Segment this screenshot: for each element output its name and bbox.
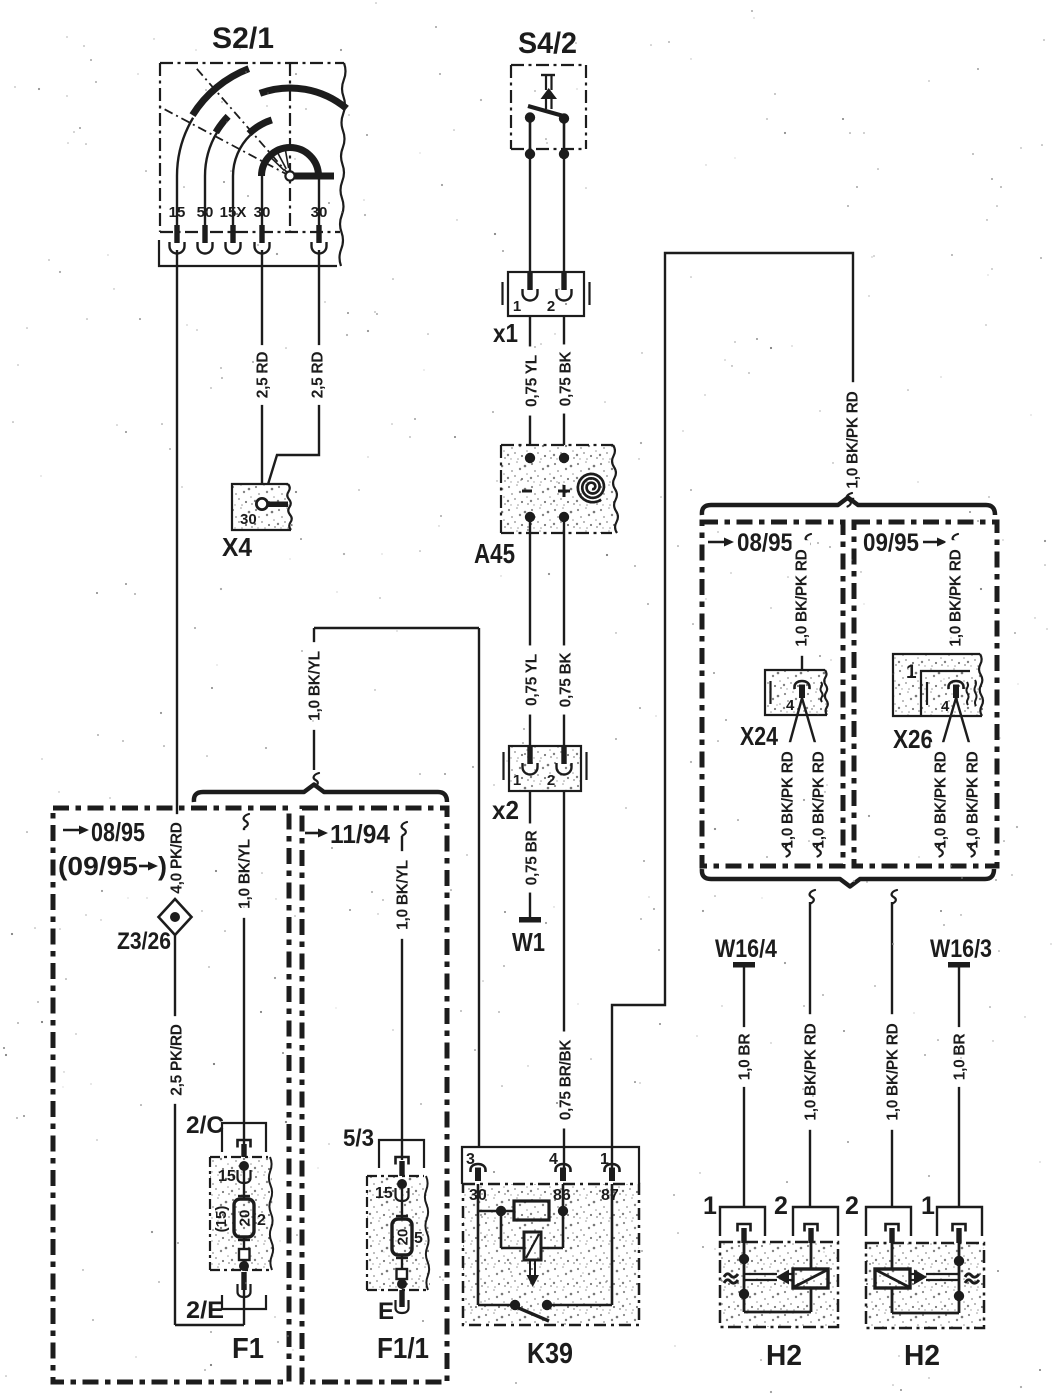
svg-text:W1: W1 xyxy=(512,927,545,957)
svg-text:0,75 YL: 0,75 YL xyxy=(523,654,540,706)
svg-text:20: 20 xyxy=(395,1229,412,1246)
svg-text:1,0 BR: 1,0 BR xyxy=(736,1034,753,1081)
svg-text:2,5 PK/RD: 2,5 PK/RD xyxy=(168,1024,185,1095)
svg-text:1: 1 xyxy=(703,1192,717,1220)
svg-text:09/95: 09/95 xyxy=(863,529,919,557)
svg-text:H2: H2 xyxy=(766,1340,802,1372)
svg-text:4,0 PK/RD: 4,0 PK/RD xyxy=(168,822,185,893)
svg-text:S4/2: S4/2 xyxy=(518,27,577,60)
svg-text:(15): (15) xyxy=(213,1206,230,1233)
svg-text:15: 15 xyxy=(169,204,186,221)
svg-text:1: 1 xyxy=(513,772,521,789)
svg-text:2: 2 xyxy=(774,1192,788,1220)
svg-text:1: 1 xyxy=(513,298,521,315)
svg-text:30: 30 xyxy=(240,511,257,528)
svg-text:0,75 BK: 0,75 BK xyxy=(557,652,574,708)
svg-text:X26: X26 xyxy=(893,724,933,754)
svg-text:2,5 RD: 2,5 RD xyxy=(254,352,271,399)
svg-text:X24: X24 xyxy=(740,721,778,751)
svg-text:X4: X4 xyxy=(222,532,252,562)
svg-text:30: 30 xyxy=(311,204,328,221)
svg-text:50: 50 xyxy=(197,204,214,221)
svg-text:0,75 BR/BK: 0,75 BR/BK xyxy=(557,1039,574,1121)
svg-text:15: 15 xyxy=(218,1168,236,1185)
svg-text:E: E xyxy=(378,1298,394,1325)
svg-text:2: 2 xyxy=(547,298,555,315)
svg-text:11/94: 11/94 xyxy=(330,819,390,849)
svg-text:K39: K39 xyxy=(527,1338,573,1370)
svg-text:1,0 BK/YL: 1,0 BK/YL xyxy=(236,839,253,909)
svg-text:W16/4: W16/4 xyxy=(715,935,777,963)
svg-text:4: 4 xyxy=(786,697,795,714)
svg-text:1,0 BK/PK RD: 1,0 BK/PK RD xyxy=(793,549,810,646)
svg-text:30: 30 xyxy=(254,204,271,221)
svg-text:S2/1: S2/1 xyxy=(212,22,274,55)
svg-text:2/C: 2/C xyxy=(186,1112,224,1139)
svg-text:1,0 BK/PK RD: 1,0 BK/PK RD xyxy=(884,1023,901,1120)
svg-text:15: 15 xyxy=(375,1185,393,1202)
svg-text:1,0 BK/PK RD: 1,0 BK/PK RD xyxy=(779,751,796,848)
svg-text:Z3/26: Z3/26 xyxy=(117,928,171,955)
svg-text:0,75 BK: 0,75 BK xyxy=(557,351,574,407)
svg-text:H2: H2 xyxy=(904,1340,940,1372)
svg-text:08/95: 08/95 xyxy=(737,529,793,557)
svg-text:F1/1: F1/1 xyxy=(377,1333,429,1365)
svg-text:20: 20 xyxy=(237,1210,254,1227)
svg-text:08/95: 08/95 xyxy=(91,817,145,847)
svg-text:2,5 RD: 2,5 RD xyxy=(309,352,326,399)
svg-text:1,0 BK/PK RD: 1,0 BK/PK RD xyxy=(932,751,949,848)
svg-text:4: 4 xyxy=(941,698,950,715)
svg-text:1: 1 xyxy=(906,662,917,683)
svg-text:15X: 15X xyxy=(220,204,247,221)
svg-text:1: 1 xyxy=(921,1192,935,1220)
svg-text:1,0 BK/PK RD: 1,0 BK/PK RD xyxy=(947,549,964,646)
svg-text:1,0 BK/YL: 1,0 BK/YL xyxy=(394,860,411,930)
svg-text:1,0 BK/PK RD: 1,0 BK/PK RD xyxy=(964,751,981,848)
svg-text:2/E: 2/E xyxy=(186,1297,224,1324)
svg-text:1,0 BK/YL: 1,0 BK/YL xyxy=(306,651,323,721)
svg-text:0,75 YL: 0,75 YL xyxy=(523,355,540,407)
svg-text:F1: F1 xyxy=(232,1333,264,1365)
svg-text:1,0 BR: 1,0 BR xyxy=(951,1034,968,1081)
svg-text:0,75 BR: 0,75 BR xyxy=(523,831,540,886)
svg-text:): ) xyxy=(158,851,167,881)
svg-text:W16/3: W16/3 xyxy=(930,935,992,963)
svg-text:A45: A45 xyxy=(474,538,515,569)
svg-text:1,0 BK/PK RD: 1,0 BK/PK RD xyxy=(844,391,861,488)
svg-text:2: 2 xyxy=(547,772,555,789)
svg-text:5/3: 5/3 xyxy=(343,1125,374,1152)
svg-text:x2: x2 xyxy=(492,795,519,825)
svg-text:x1: x1 xyxy=(493,318,518,348)
svg-text:87: 87 xyxy=(601,1187,619,1204)
svg-text:2: 2 xyxy=(257,1212,266,1229)
svg-text:2: 2 xyxy=(845,1192,859,1220)
svg-text:1,0 BK/PK RD: 1,0 BK/PK RD xyxy=(802,1023,819,1120)
svg-text:(09/95: (09/95 xyxy=(58,851,138,881)
svg-text:5: 5 xyxy=(414,1230,423,1247)
svg-text:1,0 BK/PK RD: 1,0 BK/PK RD xyxy=(810,751,827,848)
